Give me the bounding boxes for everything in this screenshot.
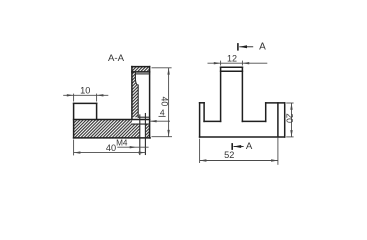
svg-text:A-A: A-A [108,53,125,64]
cap top [132,66,150,68]
outline left view [74,67,151,138]
shoulder right [242,120,265,122]
dimension 12 [208,61,268,66]
base top [74,119,150,121]
dimension 20 [286,103,293,137]
right edge [284,103,286,137]
dimension 40 vertical [152,68,173,137]
svg-text:4: 4 [160,108,165,118]
shelf line y117 [138,116,149,118]
hatch base plate section [74,120,132,138]
svg-text:40: 40 [106,143,116,153]
dimension 4 [150,116,170,122]
section mark A top [238,43,253,51]
section mark A bottom [232,143,243,150]
recess line y124 [132,123,150,125]
M4 hole left line [139,115,141,155]
hatch wall lower right [145,124,149,138]
thread line under cap [135,73,149,75]
inner edge line [277,103,279,137]
thread callout M4 [117,146,148,148]
svg-text:A: A [259,41,266,52]
hatch cap strip [132,67,150,72]
step right edge [96,103,98,119]
svg-text:12: 12 [227,53,237,63]
hatch wall strip [132,72,138,117]
column thread line [221,70,243,72]
left edge [73,103,75,137]
svg-text:52: 52 [224,150,234,160]
right stub top [266,102,285,104]
M4 hole right line [144,114,146,155]
column right edge [241,67,243,121]
right stub left edge [265,103,267,122]
wall strip inner edge with fillet [135,72,138,117]
right edge wall [149,67,151,138]
svg-text:10: 10 [80,85,90,95]
base bottom [74,137,151,139]
svg-text:40: 40 [159,97,169,107]
dimension 52 [200,137,278,165]
left stub top [200,102,205,104]
dimension 10 [63,94,108,102]
svg-text:20: 20 [285,113,295,123]
hatch wall lower left [132,124,140,138]
left edge [199,103,201,137]
dimension 40 bottom [74,140,146,156]
svg-text:M4: M4 [116,139,128,148]
wall left edge [131,67,133,120]
column left edge [220,67,222,121]
outline right view [200,67,285,137]
cap bottom [132,71,150,73]
left stub right edge [203,103,205,122]
step top [74,102,97,104]
svg-text:A: A [246,141,253,152]
shoulder left [204,120,221,122]
base bottom [200,136,285,138]
column top [221,66,243,68]
